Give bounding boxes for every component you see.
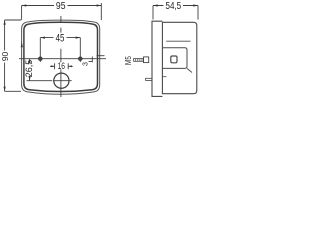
svg-text:3: 3 (81, 62, 90, 66)
dimension 95: line (22, 5, 102, 7)
lamp holder circle (54, 73, 69, 88)
svg-text:M5: M5 (124, 56, 133, 65)
locating pin (146, 78, 152, 80)
right hole vertical extension line (79, 38, 81, 62)
M5 stud: threaded shaft (134, 59, 144, 62)
circle horizontal centerline (53, 80, 72, 82)
side view: housing body (162, 22, 196, 93)
svg-text:95: 95 (56, 1, 66, 12)
dimension 26,5: lower extension toward circle centerline (27, 80, 53, 82)
dimension 16: outside arrows + stubs (50, 65, 73, 67)
front view: lens outline (inner) (24, 22, 98, 91)
dimension 54,5: line (153, 5, 198, 7)
dimension 90: line (4, 20, 6, 91)
small arrow mark on left edge (21, 41, 23, 47)
dimension 26,5: line + arrows (29, 59, 31, 81)
horizontal centerline through mounting holes (19, 58, 106, 60)
side view: lens plate (152, 21, 162, 96)
svg-text:45: 45 (56, 33, 65, 45)
front view: outer housing outline (22, 20, 100, 94)
vertical centerline of lamp (chain segments) (60, 16, 62, 97)
svg-text:54,5: 54,5 (166, 1, 182, 12)
mounting hole left (39, 57, 43, 61)
left hole vertical extension line (39, 38, 41, 62)
dimension 54,5: arrows (153, 4, 198, 6)
dimension 95: extension lines (22, 3, 102, 20)
dimension 3: bracket (89, 57, 93, 63)
side view: inner panel with connector (166, 40, 190, 42)
mounting hole right (79, 57, 83, 61)
shelf line (162, 76, 166, 78)
svg-text:26,5: 26,5 (24, 60, 34, 78)
connector square hole (171, 56, 177, 63)
dimension 45: line (40, 37, 80, 39)
svg-text:16: 16 (58, 61, 65, 71)
dimension 16: extension ticks (55, 63, 69, 69)
dimension 90: arrows (4, 20, 6, 91)
dimension 90: extension lines (5, 20, 21, 91)
dimension 54,5: extension lines (153, 6, 198, 20)
M5 stud: collar (144, 57, 149, 63)
dimension 95: arrows (22, 4, 102, 6)
dimension 3: upper tick at right edge (97, 55, 105, 57)
svg-text:90: 90 (1, 51, 10, 61)
dimension 45: arrows (40, 37, 80, 39)
